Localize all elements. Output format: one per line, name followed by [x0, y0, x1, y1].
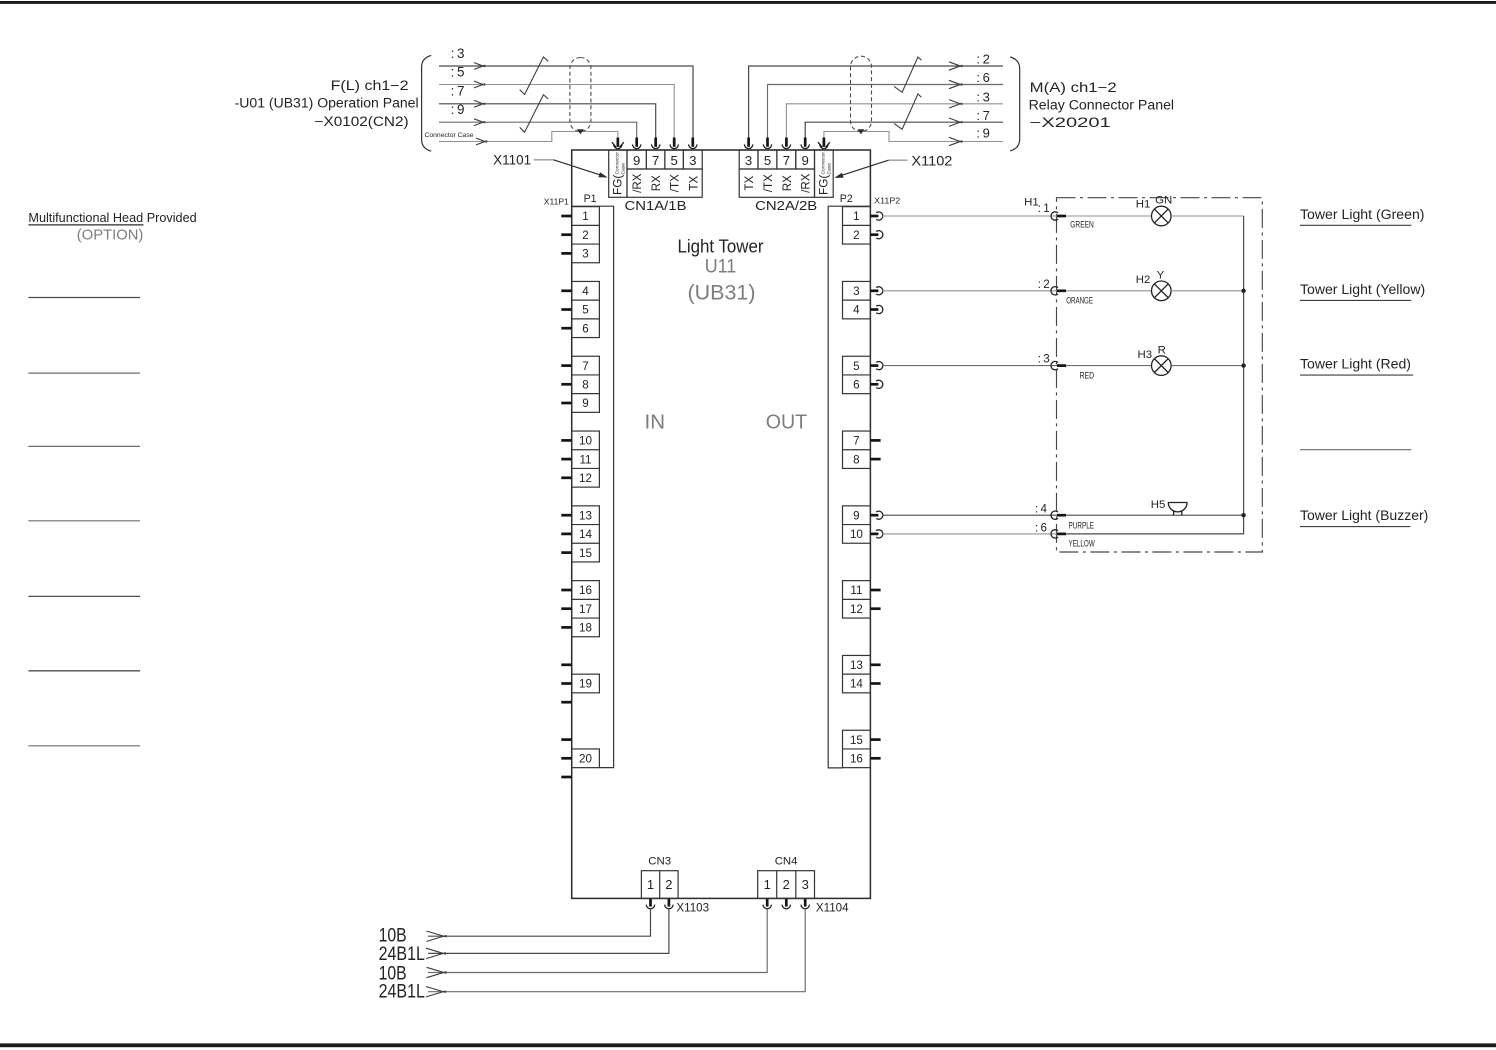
CN2A FG cell: [815, 150, 834, 197]
svg-text:−X0102(CN2): −X0102(CN2): [315, 114, 409, 129]
P2 pin group 13..14 box: [843, 655, 871, 692]
svg-text:4: 4: [853, 304, 860, 317]
P2 pin 2 stub and socket: [870, 231, 882, 239]
boundary socket :4: [1051, 511, 1058, 519]
connector P2 body: [828, 206, 870, 768]
P1 pin 8 tick: [561, 383, 571, 386]
svg-text:2: 2: [783, 877, 790, 892]
svg-text:Case: Case: [620, 163, 626, 175]
svg-text:17: 17: [579, 603, 592, 616]
svg-text:5: 5: [582, 304, 588, 317]
svg-text:CN4: CN4: [775, 856, 798, 868]
svg-text:X1104: X1104: [816, 901, 849, 914]
boundary stub :4: [1057, 514, 1066, 517]
CN2A pin9 stub and socket: [801, 138, 809, 149]
svg-text:1: 1: [853, 210, 859, 223]
svg-text:: 6: : 6: [1035, 521, 1047, 534]
svg-text:13: 13: [850, 659, 863, 672]
P1 spare position tick: [561, 738, 571, 741]
P2 pin 5 stub and socket: [870, 362, 882, 370]
twisted pair mark (:7/:9): [520, 95, 549, 133]
svg-text:: 9: : 9: [451, 102, 465, 117]
junction H2/bus: [1241, 289, 1245, 293]
wire 24B1L to CN4 pin3: [428, 909, 805, 992]
wire CN2A FG to :9: [824, 132, 1003, 142]
svg-text:/TX: /TX: [669, 174, 682, 192]
svg-text:1: 1: [582, 210, 588, 223]
P1 pin group 20..20 box: [572, 749, 600, 768]
svg-text:2: 2: [853, 229, 859, 242]
svg-text:Connector Case: Connector Case: [425, 132, 474, 139]
P1 pin 17 tick: [561, 607, 571, 610]
svg-text:Connector: Connector: [821, 152, 827, 175]
arrow on 10B wire: [427, 931, 447, 941]
wire P2 pin3 to H2: [883, 290, 1152, 292]
twisted pair mark (:3/:5): [520, 57, 549, 95]
option blank line 7: [28, 745, 140, 747]
boundary socket :1: [1051, 212, 1058, 220]
svg-text:(UB31): (UB31): [688, 281, 756, 304]
wire 10B to CN4 pin1: [428, 909, 767, 973]
svg-text:H1: H1: [1024, 197, 1039, 209]
svg-text:: 9: : 9: [976, 125, 989, 140]
svg-text:6: 6: [582, 322, 588, 335]
arrow on wire :6: [949, 80, 962, 88]
svg-text:: 3: : 3: [451, 46, 465, 61]
arrow on second 10B wire: [427, 967, 447, 977]
arrow on 24B1L wire: [426, 948, 446, 958]
arrow on wire :9: [949, 137, 962, 145]
svg-text:1: 1: [647, 877, 654, 892]
label Tower Light (Buzzer): [1300, 508, 1428, 526]
tower light assembly dash-dot enclosure: [1057, 198, 1263, 552]
wire P2 pin5 to H3: [883, 365, 1152, 367]
svg-text:11: 11: [579, 453, 591, 466]
svg-text:: 3: : 3: [976, 89, 989, 104]
CN1A pin9 stub and socket: [633, 138, 641, 149]
svg-text:: 7: : 7: [976, 108, 989, 123]
P2 pin 15 tick: [870, 738, 880, 741]
junction H3/bus: [1241, 363, 1245, 367]
P1 pin 2 tick: [561, 233, 571, 236]
wire H2 to bus: [1171, 290, 1244, 292]
svg-text:2: 2: [665, 877, 672, 892]
P1 pin 15 tick: [561, 551, 571, 554]
P1 pin 9 tick: [561, 402, 571, 405]
P2 pin 12 tick: [870, 607, 880, 610]
svg-text:FG(: FG(: [611, 175, 625, 195]
buzzer H5: [1168, 503, 1188, 516]
svg-text:FG(: FG(: [817, 175, 831, 195]
svg-text:15: 15: [579, 547, 592, 560]
svg-text:14: 14: [579, 528, 592, 541]
left cable bracket: [422, 55, 432, 151]
P1 pin 7 tick: [561, 364, 571, 367]
P1 spare position tick: [561, 776, 571, 779]
svg-text:CN3: CN3: [648, 856, 671, 868]
svg-text:5: 5: [671, 153, 678, 168]
connector CN4 cells: [758, 871, 815, 899]
svg-text:R: R: [1158, 345, 1166, 357]
svg-text:16: 16: [850, 753, 863, 766]
shield drain marker (right): [858, 129, 865, 134]
svg-text:X11P1: X11P1: [544, 198, 569, 207]
P2 pin 3 stub and socket: [870, 287, 882, 295]
svg-text:5: 5: [853, 360, 859, 373]
svg-text:P2: P2: [840, 193, 853, 205]
CN1A pin3 stub and socket: [689, 138, 697, 149]
P1 pin 14 tick: [561, 533, 571, 536]
shield drain marker (left): [577, 129, 584, 134]
svg-text:7: 7: [582, 360, 588, 373]
cable shield oval (left): [570, 58, 591, 132]
P2 pin group 1..2 box: [843, 207, 871, 244]
P2 pin group 3..4 box: [843, 281, 871, 318]
svg-text:9: 9: [802, 153, 809, 168]
svg-text:: 7: : 7: [451, 84, 465, 99]
twisted pair mark (:3/:7): [894, 94, 921, 129]
P2 pin group 15..16 box: [843, 730, 871, 767]
label Multifunctional Head Provided: [28, 211, 196, 225]
P2 pin 10 stub and socket: [870, 530, 882, 538]
svg-text:24B1L: 24B1L: [379, 944, 425, 965]
svg-text:18: 18: [579, 622, 592, 635]
option blank line 4: [28, 520, 140, 522]
wire CN2A pin9 to :7: [805, 122, 1003, 138]
svg-text:: 5: : 5: [451, 64, 465, 79]
svg-text:H5: H5: [1151, 499, 1166, 511]
svg-text:P1: P1: [584, 193, 597, 205]
P2 pin group 11..12 box: [843, 581, 871, 618]
svg-text:3: 3: [802, 877, 809, 892]
svg-text:3: 3: [853, 285, 859, 298]
P1 pin 16 tick: [561, 589, 571, 592]
svg-text:Tower Light (Red): Tower Light (Red): [1300, 357, 1411, 372]
P2 pin group 9..10 box: [843, 506, 871, 543]
svg-text:X1103: X1103: [676, 901, 709, 914]
CN3 pin2 stub and socket: [665, 899, 673, 909]
svg-text:(OPTION): (OPTION): [77, 228, 144, 244]
svg-text:ORANGE: ORANGE: [1066, 296, 1093, 307]
svg-text:16: 16: [579, 584, 592, 597]
CN1A pin7 stub and socket: [652, 138, 660, 149]
P2 pin group 5..6 box: [843, 356, 871, 393]
CN1A pin5 stub and socket: [670, 138, 678, 149]
wire Connector Case to CN1A FG: [439, 132, 618, 142]
svg-text:X11P2: X11P2: [874, 197, 900, 206]
svg-text:12: 12: [850, 603, 863, 616]
boundary stub :2: [1057, 289, 1066, 292]
CN4 pin3 stub and socket: [801, 899, 809, 909]
svg-text:: 6: : 6: [976, 70, 989, 85]
P2 pin group 7..8 box: [843, 431, 871, 468]
svg-text:/RX: /RX: [800, 173, 813, 193]
svg-text:RX: RX: [650, 175, 663, 191]
CN4 pin1 stub and socket: [763, 899, 771, 909]
P1 spare position tick: [561, 701, 571, 704]
wire CN2A pin5 to :6: [768, 85, 1004, 139]
arrow on wire :3: [474, 63, 485, 70]
svg-text:H1: H1: [1136, 199, 1151, 211]
wire CN2A pin3 to :2: [749, 66, 1003, 139]
P1 spare position tick: [561, 663, 571, 666]
CN2A FG rotated label: [817, 152, 833, 195]
option blank line 5: [28, 595, 140, 597]
P1 pin 19 tick: [561, 682, 571, 685]
svg-text:RED: RED: [1080, 370, 1095, 381]
P2 pin 4 stub and socket: [870, 305, 882, 313]
svg-text:2: 2: [582, 229, 588, 242]
svg-text:Tower Light (Buzzer): Tower Light (Buzzer): [1300, 508, 1428, 523]
svg-text:24B1L: 24B1L: [379, 982, 425, 1003]
option blank line 2: [28, 372, 140, 374]
boundary stub :3: [1057, 364, 1066, 367]
svg-text:Case: Case: [826, 163, 832, 175]
svg-text:M(A) ch1−2: M(A) ch1−2: [1030, 80, 1117, 95]
lamp H1: [1152, 206, 1172, 226]
connector CN2A/2B pin number row: [739, 150, 814, 169]
svg-text:13: 13: [579, 509, 592, 522]
P1 pin 18 tick: [561, 626, 571, 629]
lamp H3: [1152, 356, 1172, 376]
wire P2 pin1 to H1: [883, 215, 1152, 217]
svg-text:Light Tower: Light Tower: [678, 235, 764, 256]
boundary stub :6: [1057, 533, 1066, 536]
svg-text:/RX: /RX: [631, 173, 644, 193]
wire :9 to CN1A pin9: [439, 122, 637, 138]
arrow on wire :2: [949, 62, 962, 70]
P2 pin 6 stub and socket: [870, 380, 882, 388]
connector CN3 cells: [641, 871, 678, 899]
P2 pin 7 tick: [870, 439, 880, 442]
P1 pin 13 tick: [561, 514, 571, 517]
lamp H2: [1152, 281, 1172, 301]
svg-text:20: 20: [579, 753, 592, 766]
svg-text:Relay Connector Panel: Relay Connector Panel: [1029, 98, 1175, 113]
svg-text:5: 5: [764, 153, 771, 168]
P1 pin group 10..12 box: [572, 431, 600, 487]
CN2A pin7 stub and socket: [782, 138, 790, 149]
svg-text:: 2: : 2: [1038, 278, 1050, 291]
P2 pin 14 tick: [870, 682, 880, 685]
arrow on wire :7: [949, 118, 962, 126]
wire 24B1L to CN3 pin2: [428, 909, 669, 953]
connector P1 body: [572, 206, 614, 767]
boundary socket :2: [1051, 287, 1058, 295]
CN2A pin3 stub and socket: [744, 138, 752, 149]
svg-text:: 3: : 3: [1038, 353, 1050, 366]
bottom border bar: [0, 1043, 1496, 1047]
P1 pin 10 tick: [561, 439, 571, 442]
svg-text:3: 3: [745, 153, 752, 168]
svg-text:: 4: : 4: [1035, 503, 1048, 516]
wire H1 to bus: [1171, 215, 1244, 217]
connector CN1A/1B FG cell: [609, 150, 627, 197]
arrow on wire :3: [949, 100, 962, 108]
arrow on Connector Case wire: [476, 138, 487, 145]
wire P2 pin9 to buzzer: [883, 514, 1244, 516]
svg-text:X1102: X1102: [911, 154, 952, 169]
label X1102 with leader: [834, 154, 952, 178]
P1 pin 5 tick: [561, 308, 571, 311]
twisted pair mark (:2/:6): [894, 57, 921, 92]
svg-text:TX: TX: [743, 176, 756, 191]
wire P2 pin10 return: [883, 533, 1058, 535]
boundary socket :3: [1051, 361, 1058, 369]
arrow on wire :5: [474, 81, 485, 88]
svg-text:OUT: OUT: [766, 410, 808, 433]
P2 pin 9 stub and socket: [870, 511, 882, 519]
P2 pin 16 tick: [870, 757, 880, 760]
CN1A FG pin stub and socket: [612, 138, 624, 149]
svg-text:−X20201: −X20201: [1030, 115, 1111, 130]
svg-text:X1101: X1101: [493, 153, 531, 168]
svg-text:F(L) ch1−2: F(L) ch1−2: [331, 78, 409, 93]
svg-text:IN: IN: [645, 410, 666, 433]
wire CN2A pin7 to :3: [786, 104, 1003, 139]
CN1A FG rotated label: [611, 152, 627, 195]
label X1101 with leader: [493, 153, 608, 178]
svg-text:3: 3: [582, 248, 588, 261]
svg-text:/TX: /TX: [762, 174, 775, 192]
svg-text:8: 8: [582, 379, 588, 392]
option blank line 3: [28, 445, 140, 447]
CN3 pin1 stub and socket: [646, 899, 654, 909]
svg-text:10: 10: [850, 528, 863, 541]
P2 pin 11 tick: [870, 589, 880, 592]
svg-text:: 1: : 1: [1038, 202, 1050, 215]
svg-text:15: 15: [850, 734, 863, 747]
svg-text:Multifunctional Head Provided: Multifunctional Head Provided: [28, 211, 196, 225]
option blank line 6: [28, 670, 140, 672]
svg-text:19: 19: [579, 678, 592, 691]
wire :7 to CN1A pin7: [439, 104, 656, 139]
svg-text:4: 4: [582, 285, 589, 298]
P1 pin 6 tick: [561, 327, 571, 330]
svg-text:7: 7: [783, 153, 790, 168]
svg-text:1: 1: [764, 877, 771, 892]
CN2A FG stub and socket: [818, 138, 830, 149]
svg-text:YELLOW: YELLOW: [1069, 538, 1096, 549]
top border bar: [0, 1, 1496, 4]
CN1A signal name row: [627, 169, 702, 197]
P1 pin 11 tick: [561, 458, 571, 461]
svg-text:11: 11: [850, 584, 862, 597]
svg-text:Tower Light (Yellow): Tower Light (Yellow): [1300, 282, 1425, 297]
svg-text:GN: GN: [1155, 195, 1172, 207]
svg-text:7: 7: [652, 153, 659, 168]
lamp return bus: [1062, 216, 1244, 534]
arrow on wire :7: [474, 100, 485, 107]
P1 pin 4 tick: [561, 289, 571, 292]
P1 pin group 1..3 box: [572, 207, 600, 263]
label Tower Light (Green): [1300, 207, 1425, 225]
wire 10B to CN3 pin1: [428, 909, 651, 936]
svg-text:8: 8: [853, 453, 859, 466]
P2 pin 8 tick: [870, 458, 880, 461]
P1 pin group 19..19 box: [572, 674, 600, 693]
boundary stub :1: [1057, 215, 1066, 218]
svg-text:12: 12: [579, 472, 592, 485]
svg-text:PURPLE: PURPLE: [1069, 521, 1095, 532]
P1 pin group 7..9 box: [572, 356, 600, 412]
CN1A pin number row: [627, 150, 702, 169]
svg-text:Tower Light (Green): Tower Light (Green): [1300, 207, 1425, 222]
P1 pin 20 tick: [561, 757, 571, 760]
svg-text:9: 9: [633, 153, 640, 168]
wire H3 to bus: [1171, 365, 1244, 367]
cable shield oval (right): [851, 56, 872, 131]
wire :5 to CN1A pin5: [439, 85, 674, 139]
P1 pin 3 tick: [561, 252, 571, 255]
svg-text:9: 9: [853, 509, 859, 522]
P1 pin group 4..6 box: [572, 281, 600, 337]
P1 pin group 16..18 box: [572, 581, 600, 637]
svg-text:RX: RX: [781, 175, 794, 191]
svg-text:6: 6: [853, 379, 859, 392]
P1 pin group 13..15 box: [572, 506, 600, 562]
svg-text:H3: H3: [1138, 349, 1153, 361]
svg-text:U11: U11: [705, 256, 737, 277]
right cable bracket: [1010, 57, 1020, 151]
svg-text:-U01 (UB31) Operation Panel: -U01 (UB31) Operation Panel: [235, 96, 419, 111]
wire :3 to CN1A pin3: [439, 66, 693, 139]
svg-text:H2: H2: [1136, 274, 1151, 286]
CN2A pin5 stub and socket: [763, 138, 771, 149]
svg-text:GREEN: GREEN: [1070, 220, 1094, 231]
junction buzzer/bus: [1241, 513, 1245, 517]
svg-text:TX: TX: [687, 176, 700, 191]
label Tower Light (Red): [1300, 357, 1413, 375]
svg-text:CN1A/1B: CN1A/1B: [625, 199, 687, 213]
svg-text:7: 7: [853, 435, 859, 448]
P2 pin 1 stub and socket: [870, 212, 882, 220]
unit U11 main box: [572, 150, 871, 898]
boundary socket :6: [1051, 530, 1058, 538]
svg-text:CN2A/2B: CN2A/2B: [755, 199, 817, 213]
arrow on second 24B1L wire: [426, 987, 446, 997]
arrow on wire :9: [474, 119, 485, 126]
P2 pin 13 tick: [870, 663, 880, 666]
P1 pin 1 tick: [561, 215, 571, 218]
option blank line 1: [28, 297, 140, 299]
svg-text:Y: Y: [1157, 270, 1165, 282]
svg-text:3: 3: [689, 153, 696, 168]
svg-text:Connector: Connector: [615, 152, 621, 175]
svg-text:9: 9: [582, 397, 588, 410]
CN4 pin2 stub and socket: [782, 899, 790, 909]
svg-text:: 2: : 2: [976, 52, 989, 67]
blank output rule: [1300, 449, 1411, 451]
svg-text:10: 10: [579, 435, 592, 448]
svg-text:14: 14: [850, 678, 863, 691]
label Tower Light (Yellow): [1300, 282, 1425, 301]
CN2A signal name row: [739, 169, 814, 197]
P1 pin 12 tick: [561, 476, 571, 479]
